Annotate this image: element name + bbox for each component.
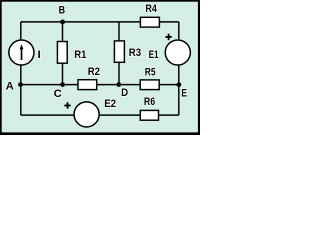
current source I [9,40,34,65]
wire right column: top row through E1 to bottom row [178,22,180,115]
resistor R3 [114,41,124,62]
svg-text:R6: R6 [144,96,155,108]
wire R3 column: top wire to D [118,22,120,85]
wire mid row: A to E [21,84,179,86]
svg-text:I: I [38,49,41,61]
current source arrow [20,44,24,60]
wire left column: top row down to bottom row through I [20,22,22,115]
node A [18,82,23,87]
border frame [0,0,200,2]
resistor R2 [78,80,97,90]
voltage source E1 [165,40,190,65]
node C [60,82,65,87]
svg-text:E1: E1 [149,49,159,61]
E2 plus sign [64,102,70,108]
resistor R5 [140,80,159,90]
svg-text:B: B [59,4,66,16]
node E [177,82,182,87]
svg-text:A: A [6,81,14,93]
svg-text:R2: R2 [88,66,100,78]
resistor R1 [57,42,67,64]
svg-text:E2: E2 [104,98,116,110]
node B [60,20,65,25]
svg-text:R1: R1 [74,49,87,61]
wire R1 column: B to C [62,22,64,85]
node D [116,82,121,87]
voltage source E2 [74,102,99,127]
svg-text:C: C [54,88,62,100]
wire bottom row: A column to E column [21,114,179,116]
svg-text:R3: R3 [129,47,141,59]
resistor R4 [140,17,159,27]
svg-text:R4: R4 [145,3,157,15]
svg-text:D: D [121,87,128,99]
svg-text:E: E [181,87,187,99]
wire top: I top to E1 top [21,21,179,23]
resistor R6 [140,110,158,120]
E1 plus sign [165,34,171,40]
svg-text:R5: R5 [145,67,156,79]
